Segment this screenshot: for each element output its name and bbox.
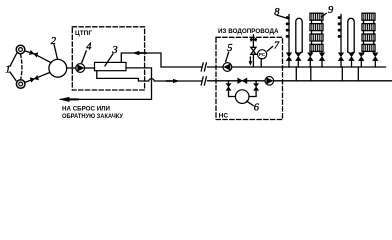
riser stubs to supply main (341, 60, 375, 67)
bypass left drop with valve (226, 81, 235, 97)
valve V2 (30, 76, 38, 82)
label 1 (5, 53, 17, 81)
label 7 (267, 41, 280, 52)
NS dashed box (216, 37, 283, 119)
wellhead 1b (16, 80, 25, 89)
circulation loop riser (348, 18, 354, 52)
svg-text:4: 4 (86, 41, 92, 52)
pipe break upper (201, 63, 206, 71)
pump P6b on lower pipe (265, 77, 274, 86)
riser valves (286, 53, 324, 61)
dashed link between wellheads (21, 54, 22, 79)
svg-text:ИЗ ВОДОПРОВОДА: ИЗ ВОДОПРОВОДА (218, 28, 279, 35)
label 8 (274, 7, 289, 19)
secondary supply pipe (exchanger bottom to NS, with bridge) (97, 71, 202, 81)
svg-text:9: 9 (328, 5, 334, 16)
arrow left on return pipe (132, 51, 146, 55)
tap riser (group at 341) (338, 15, 341, 54)
svg-text:6: 6 (254, 102, 260, 113)
label 5 (226, 43, 233, 61)
PC controller 7 (258, 50, 267, 67)
pump P5 (223, 63, 232, 72)
heat exchanger 3 (95, 62, 127, 70)
lower pipe through NS (208, 80, 392, 82)
discharge pipe (exchanger to reinjection) (61, 68, 152, 100)
label 4 (82, 41, 93, 62)
pump P4 (76, 64, 85, 73)
pump 6 (235, 90, 249, 104)
valve V3 on lower pipe (238, 78, 247, 83)
label 6 (247, 101, 260, 113)
upper pipe into pump 5 (208, 66, 224, 68)
tap riser (group at 289) (286, 15, 289, 54)
riser valves (338, 53, 378, 61)
CTPG dashed box (72, 27, 144, 90)
circulation loop riser (296, 18, 302, 52)
wire wellhead1b to separator (25, 73, 50, 83)
wire separator to pump P4 (67, 67, 76, 69)
water inlet line (252, 35, 254, 67)
radiator stack (362, 13, 375, 54)
svg-text:7: 7 (274, 41, 280, 52)
secondary return pipe (NS to exchanger top) (121, 53, 201, 67)
svg-text:ОБРАТНУЮ ЗАКАЧКУ: ОБРАТНУЮ ЗАКАЧКУ (62, 113, 124, 120)
label 2 (51, 36, 58, 60)
svg-text:НА СБРОС ИЛИ: НА СБРОС ИЛИ (62, 105, 110, 112)
separator 2 (49, 59, 67, 77)
svg-text:ЦТПГ: ЦТПГ (75, 30, 92, 37)
arrow right on supply pipe (167, 79, 180, 83)
small valve on inlet (250, 38, 256, 42)
wire pump P4 to heat exchanger (85, 67, 95, 69)
discharge arrow (59, 97, 79, 102)
valve V1 (30, 50, 38, 56)
radiator stack (310, 13, 323, 54)
wellhead 1a (16, 45, 25, 54)
svg-text:НС: НС (219, 113, 229, 120)
down arrow at junction (249, 57, 253, 66)
regulator valve (251, 47, 256, 54)
return drops between mains (341, 67, 343, 81)
pipe break lower (201, 77, 206, 85)
upper main from pump 5 to right edge (232, 66, 386, 68)
wire wellhead1a to separator (25, 51, 52, 63)
riser stubs to supply main (289, 60, 322, 67)
label 3 (105, 45, 118, 66)
bypass right drop with valve (249, 81, 259, 97)
svg-text:РС: РС (259, 52, 266, 57)
label 9 (322, 5, 334, 17)
return drops between mains (295, 67, 297, 81)
